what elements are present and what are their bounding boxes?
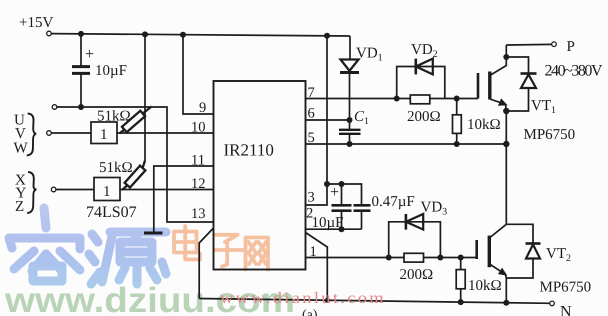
wire pin 1 LO line [306, 257, 477, 259]
svg-text:N: N [560, 304, 572, 316]
resistor 200ohm lower [404, 253, 424, 262]
wire 51k pull-up bus x145 [144, 34, 146, 160]
svg-text:1: 1 [310, 244, 317, 260]
+15V supply terminal [47, 31, 52, 36]
svg-text:0.47µF: 0.47µF [372, 194, 415, 210]
resistor 200ohm upper [410, 95, 430, 104]
svg-text:51kΩ: 51kΩ [97, 109, 131, 125]
wire N rail [199, 299, 550, 304]
svg-text:51kΩ: 51kΩ [99, 160, 133, 176]
svg-text:(a): (a) [302, 308, 318, 316]
wire VDD bus to pin 9 [183, 35, 214, 114]
diode VD1 [349, 36, 351, 60]
wire buffer2 output to pin 12 [120, 189, 214, 191]
watermark hanzi RONG (container) blue outline [9, 208, 80, 281]
capacitor 0.47uF plates [354, 205, 371, 210]
resistor 10k upper [456, 99, 458, 145]
watermark hanzi WANG pink outline [246, 238, 269, 270]
wire phase node down to VT2 [505, 111, 507, 224]
resistor 51k R1 diagonal [120, 107, 152, 134]
node dot 10k2 bottom [458, 299, 464, 305]
node dot VD3 left [386, 255, 392, 261]
WATERMARK LAYER [4, 208, 295, 316]
node dot VD2 left [394, 96, 400, 102]
svg-text:MP6750: MP6750 [524, 127, 576, 143]
wire top +15V rail [51, 34, 350, 36]
resistor 51k R2 diagonal [122, 161, 145, 191]
ground [144, 232, 163, 235]
node dot VCC/cap top [324, 181, 330, 187]
svg-text:5: 5 [308, 130, 315, 146]
buffer 74LS07 gate 1 box [91, 122, 117, 144]
wire pin 6 VB [306, 119, 350, 121]
svg-text:10kΩ: 10kΩ [468, 278, 502, 294]
svg-text:www.dianlut.com: www.dianlut.com [220, 290, 386, 307]
capacitor C-in 10uF leads [80, 34, 82, 107]
buffer 74LS07 gate 2 box [94, 178, 120, 201]
svg-text:MP6750: MP6750 [540, 280, 592, 296]
svg-text:240~380V: 240~380V [545, 63, 603, 80]
wire pin 2 COM [306, 228, 362, 230]
wire HIN input from U/V/W [47, 131, 52, 136]
svg-text:6: 6 [308, 106, 315, 122]
wire buffer1 output to pin 10 [117, 132, 214, 134]
transistor Q2 IGBT VT2 [475, 240, 478, 259]
terminal P [552, 42, 557, 47]
capacitor 0.47uF bottom lead [361, 211, 363, 230]
svg-text:9: 9 [199, 100, 206, 116]
node dot 10uF top [339, 181, 345, 187]
svg-text:IR2110: IR2110 [224, 141, 274, 160]
wire VSS drop to N rail [199, 228, 213, 299]
node dot collector/diode [503, 54, 509, 60]
watermark hanzi YUAN (source) blue outline [89, 232, 166, 284]
watermark hanzi DIAN pink outline [174, 226, 200, 260]
node dot 10uF bottom [339, 226, 345, 232]
node dot cap C-in top [78, 31, 84, 37]
op-amp U1 IR2110 box [214, 81, 306, 270]
svg-text:200Ω: 200Ω [400, 267, 434, 283]
wire COM drop to N rail [306, 233, 328, 301]
node dot VS phase [503, 141, 509, 147]
node dot 10k bottom on VS [454, 141, 460, 147]
node dot C1 bottom [347, 141, 353, 147]
node dot cap C-in bottom [78, 104, 84, 110]
svg-text:P: P [567, 39, 575, 55]
svg-text:W: W [14, 141, 29, 157]
wire pin 5 VS line [306, 143, 507, 145]
svg-text:Z: Z [15, 199, 24, 215]
diode D2 antiparallel VT2 [506, 224, 533, 243]
svg-text:7: 7 [308, 85, 315, 101]
wire pin 7 HO line [306, 98, 479, 100]
wire VD2 loop [397, 67, 445, 99]
node dot VCC bus [324, 33, 330, 39]
wire VCC bus to pin 3 [306, 36, 328, 205]
svg-text:1: 1 [103, 184, 111, 200]
capacitor C1 [339, 130, 361, 134]
diode VD2 [414, 59, 417, 75]
brace XYZ [27, 172, 36, 213]
svg-text:10kΩ: 10kΩ [467, 117, 501, 133]
wire LIN input from X/Y/Z [51, 187, 56, 192]
node dot VB/C1 [347, 117, 353, 123]
node dot COM on N rail [325, 298, 330, 303]
wire VD3 loop [389, 222, 441, 258]
diode D1 antiparallel VT1 [506, 57, 528, 74]
node dot emitter/diode [503, 108, 509, 114]
wire pin 3 cap bus [327, 184, 362, 205]
node dot VT2 emitter rail [503, 300, 509, 306]
watermark hanzi ZI pink outline [215, 235, 243, 267]
node dot 10k2 top [458, 255, 464, 261]
resistor 10k lower [460, 258, 462, 303]
svg-text:74LS07: 74LS07 [86, 204, 137, 221]
node dot 10k gate tap [454, 96, 460, 102]
transistor Q1 IGBT VT1 [477, 73, 480, 99]
svg-text:200Ω: 200Ω [407, 109, 441, 125]
svg-text:10µF: 10µF [312, 215, 344, 231]
wire pin 11 to ground [154, 166, 214, 232]
capacitor 10uF lower leads [341, 184, 343, 229]
capacitor 10uF lower plates [332, 205, 352, 210]
svg-text:+: + [85, 46, 94, 63]
diode VD3 [405, 214, 408, 230]
CIRCUIT LAYER [47, 31, 557, 306]
wire P line [506, 43, 552, 46]
brace UVW [27, 113, 36, 155]
svg-text:+15V: +15V [19, 15, 53, 31]
node dot VD3 right [437, 255, 443, 261]
wire COM input line (y107) [52, 105, 57, 110]
terminal N [550, 301, 555, 306]
svg-text:10: 10 [191, 120, 206, 136]
node dot VDD bus [180, 32, 186, 38]
svg-text:1: 1 [100, 127, 108, 143]
svg-text:13: 13 [191, 206, 206, 222]
capacitor C-in plates [72, 67, 90, 74]
svg-text:+: + [330, 184, 339, 201]
svg-text:3: 3 [308, 190, 315, 206]
svg-text:12: 12 [191, 176, 206, 192]
node dot pullup bus [142, 31, 148, 37]
svg-text:11: 11 [191, 153, 205, 169]
svg-text:10µF: 10µF [95, 63, 127, 79]
